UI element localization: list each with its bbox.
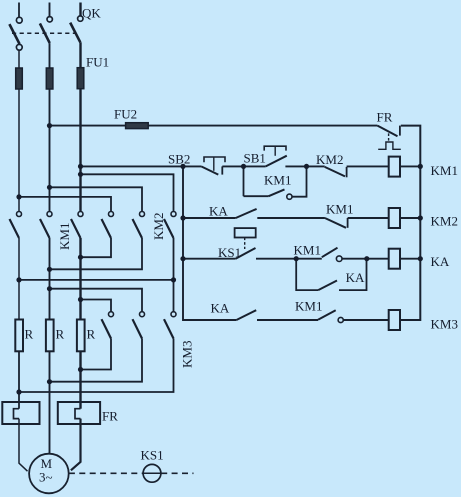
wire L1 node to KM2 contact3 xyxy=(19,279,174,281)
wire phase L3 to motor xyxy=(71,419,81,471)
svg-text:KM1: KM1 xyxy=(295,299,322,314)
wire KM1 self-hold riser xyxy=(292,166,307,196)
junction node KM2c3 KM3c3 xyxy=(171,277,176,282)
fuse FU2 xyxy=(126,123,149,129)
svg-text:KA: KA xyxy=(346,270,365,285)
contactor KM3 contact 3 blade xyxy=(164,319,174,338)
junction node L3 KM2 return xyxy=(78,255,83,260)
wire KM3 contact3 to L1 below R xyxy=(19,339,174,393)
relay FR trip symbol xyxy=(378,142,401,149)
wire KM2 contact3 down to KM3 contact3 xyxy=(173,238,175,312)
svg-text:KM1: KM1 xyxy=(431,163,458,178)
wire rung4 KA label segment xyxy=(235,319,237,321)
contactor KM2 main contact 2 terminal xyxy=(140,212,145,217)
resistor R3 xyxy=(77,320,85,352)
contact KM1 self-hold terminal xyxy=(287,194,292,199)
wire phase L2 through fuse FU1b xyxy=(49,43,51,211)
wire phase L3 top stub xyxy=(79,3,81,17)
pushbutton SB2 blade xyxy=(201,166,218,174)
contact KM2 NC aux blade xyxy=(325,167,345,177)
contact KM1 NO rung3 blade xyxy=(322,248,338,258)
svg-text:KM2: KM2 xyxy=(316,152,343,167)
svg-text:QK: QK xyxy=(82,6,101,21)
wire phase L1 to motor xyxy=(19,419,28,472)
svg-text:KA: KA xyxy=(209,204,228,219)
relay FR heater box b xyxy=(58,402,100,424)
wire KM3 contact1 to L3 below R xyxy=(81,339,112,370)
wire phase L1 below resistor xyxy=(18,351,20,408)
relay FR trip linkage dashes xyxy=(388,133,390,140)
wire KM2 feed crossover L1 xyxy=(19,197,111,212)
resistor R2 xyxy=(46,320,54,352)
coil KM1 xyxy=(389,157,400,177)
wire rung4 middle xyxy=(257,319,318,321)
heater FR element a xyxy=(14,409,20,419)
svg-text:SB2: SB2 xyxy=(168,152,190,167)
svg-text:R: R xyxy=(25,327,34,342)
wire KM2 feed crossover L2 xyxy=(50,187,143,211)
fuse FU1 element a xyxy=(16,68,23,89)
svg-text:KM2: KM2 xyxy=(151,213,166,240)
wire coil KA to bus xyxy=(400,258,420,260)
wire rung1 left from L3 xyxy=(81,165,202,167)
contactor KM3 contact 1 terminal xyxy=(109,312,114,317)
contact KA NO rung2 blade xyxy=(236,209,257,218)
wire phase L1 through fuse FU1a xyxy=(18,50,20,211)
speed relay KS1 rotor circle xyxy=(143,464,161,482)
svg-text:KM1: KM1 xyxy=(264,173,291,188)
junction node L1 KM2 return xyxy=(16,277,21,282)
junction node L2 below R xyxy=(47,379,52,384)
contact KM1 NC rung2 post xyxy=(347,218,349,228)
wire rung3 middle xyxy=(256,258,322,260)
contact KA NO rung4 blade xyxy=(236,310,256,320)
switch QK coupling dashed link xyxy=(12,32,76,34)
contactor KM1 main contact 2 blade xyxy=(40,219,50,238)
junction node KA riser xyxy=(364,256,369,261)
contactor KM1 main contact 3 terminal xyxy=(78,212,83,217)
switch QK pole 2 terminal xyxy=(47,17,52,22)
fuse FU1 element c xyxy=(77,68,84,89)
svg-text:KM2: KM2 xyxy=(431,214,458,229)
svg-text:FU2: FU2 xyxy=(114,107,137,122)
svg-text:KA: KA xyxy=(431,254,450,269)
contact KA self-hold blade xyxy=(318,281,337,291)
coil KA xyxy=(389,249,400,269)
pushbutton SB2 post xyxy=(221,166,223,174)
switch QK pole 1 top terminal xyxy=(16,17,22,23)
svg-text:KM3: KM3 xyxy=(431,317,458,332)
contact KM1 NO rung4 blade xyxy=(318,310,336,320)
relay KS1 linkage dashes xyxy=(244,238,246,250)
wire phase L2 to resistor xyxy=(49,238,51,320)
wire coil KM2 to bus xyxy=(400,217,420,219)
svg-text:FR: FR xyxy=(102,409,118,424)
wire KM2 contact1 to L3 node xyxy=(81,238,112,257)
wire rung4 to coil KM3 xyxy=(344,319,389,321)
wire KM1 self-hold branch drop xyxy=(243,166,245,196)
svg-text:KM1: KM1 xyxy=(57,223,72,250)
contactor KM1 main contact 2 terminal xyxy=(47,212,52,217)
wire KM3 feed L2 xyxy=(50,289,143,312)
relay KS1 head box xyxy=(235,228,256,237)
junction node L3 KM3 feed xyxy=(78,297,83,302)
contact KM1 NO rung3 terminal xyxy=(336,256,342,262)
wire KM1 self-hold branch bottom xyxy=(244,195,269,197)
contact KM1 NC rung2 blade xyxy=(325,218,346,228)
contactor KM1 main contact 1 blade xyxy=(10,219,20,238)
wire phase L1 top stub xyxy=(18,3,20,18)
wire rung2 to coil KM2 xyxy=(348,217,389,219)
wire KA self-hold riser xyxy=(339,259,367,290)
relay FR heater box a xyxy=(2,402,39,424)
wire KM3 contact2 to L2 below R xyxy=(50,339,143,382)
svg-text:KS1: KS1 xyxy=(141,448,164,463)
junction node L2-FU2 xyxy=(47,123,52,128)
contactor KM3 contact 1 blade xyxy=(102,319,112,338)
junction node L3 KM2 feed xyxy=(78,172,83,177)
junction node bus KM2 coil xyxy=(418,215,423,220)
svg-text:KM1: KM1 xyxy=(294,243,321,258)
svg-text:R: R xyxy=(87,327,96,342)
contactor KM1 main contact 3 blade xyxy=(71,219,81,238)
wire rung2 left xyxy=(183,217,236,219)
junction node KS1 right xyxy=(294,256,299,261)
contact KM2 NC aux post xyxy=(346,167,348,177)
svg-text:KS1: KS1 xyxy=(218,245,241,260)
junction node bus rung2 xyxy=(180,215,185,220)
wire rung1 SB2 to SB1 xyxy=(222,165,265,167)
wire rung1 to coil KM1 xyxy=(347,165,389,167)
switch QK pole 2 blade xyxy=(40,23,50,43)
contactor KM3 contact 2 blade xyxy=(133,319,143,338)
wire phase L2 top stub xyxy=(49,3,51,17)
contactor KM3 contact 2 terminal xyxy=(140,312,145,317)
contactor KM2 main contact 3 blade xyxy=(164,219,174,238)
svg-text:KA: KA xyxy=(211,301,230,316)
svg-text:3~: 3~ xyxy=(39,470,53,485)
junction node SB1 right xyxy=(304,164,309,169)
junction node L3 rung1 xyxy=(78,164,83,169)
junction node L3 below R xyxy=(78,367,83,372)
junction node L2 KM2 return xyxy=(47,267,52,272)
pushbutton SB2 stem xyxy=(213,157,215,171)
junction node bus KA coil xyxy=(418,256,423,261)
wire rung3 to coil KA xyxy=(342,258,389,260)
wire phase L3 through fuse FU1c xyxy=(79,42,81,211)
switch QK pole 1 blade xyxy=(9,24,19,44)
wire KA self-hold drop xyxy=(296,259,318,290)
wire phase L1 to resistor xyxy=(18,238,20,320)
relay FR NC contact post xyxy=(399,126,401,136)
resistor R1 xyxy=(15,320,23,352)
pushbutton SB1 cap xyxy=(264,146,286,150)
junction node L2 KM3 feed xyxy=(47,286,52,291)
wire control feed FU2 line xyxy=(50,125,378,127)
relay FR NC contact blade xyxy=(377,126,397,137)
svg-text:R: R xyxy=(56,327,65,342)
junction node SB1 left xyxy=(241,164,246,169)
fuse FU1 element b xyxy=(46,68,53,89)
wire control left bus xyxy=(183,166,236,320)
wire KM2 contact2 to L2 node xyxy=(50,238,143,269)
contactor KM2 main contact 3 terminal xyxy=(171,212,176,217)
speed sensor shaft dashed link right xyxy=(161,472,193,474)
speed sensor shaft dashed link left xyxy=(69,472,143,474)
contactor KM3 contact 3 terminal xyxy=(171,312,176,317)
motor M circle xyxy=(29,454,69,494)
contactor KM2 main contact 2 blade xyxy=(133,219,143,238)
heater FR element b xyxy=(75,409,81,419)
pushbutton SB1 blade xyxy=(266,156,287,167)
speed relay KS1 rotor chord xyxy=(143,472,160,474)
contact KM1 self-hold blade xyxy=(269,189,285,196)
wire phase L2 to motor xyxy=(49,351,51,454)
contactor KM2 main contact 1 terminal xyxy=(109,212,114,217)
switch QK pole 1 bottom terminal xyxy=(16,44,22,50)
switch QK pole 3 blade xyxy=(70,23,80,43)
junction node bus KM1 coil xyxy=(418,164,423,169)
wire coil KM1 to bus xyxy=(400,165,420,167)
wire phase L3 to resistor xyxy=(79,238,81,320)
wire KM2 feed crossover L3 xyxy=(81,174,174,211)
coil KM2 xyxy=(389,208,400,228)
contactor KM2 main contact 1 blade xyxy=(102,219,112,238)
switch QK pole 3 terminal xyxy=(78,16,83,21)
wire top right corner xyxy=(400,126,420,320)
junction node bus rung3 xyxy=(180,256,185,261)
wire rung2 middle xyxy=(257,217,325,219)
junction node bus rung1 xyxy=(180,164,185,169)
junction node L2 KM2 feed xyxy=(47,185,52,190)
svg-text:SB1: SB1 xyxy=(244,151,266,166)
junction node L1 KM2 feed xyxy=(16,194,21,199)
wire rung1 SB1 to KM2 contact xyxy=(285,165,324,167)
wire KM3 feed L3 xyxy=(81,300,112,312)
contact KM1 NO rung4 terminal xyxy=(338,317,343,322)
wire rung3 left xyxy=(183,258,236,260)
pushbutton SB2 actuator xyxy=(204,157,225,162)
svg-text:FR: FR xyxy=(377,110,393,125)
junction node L1 below R xyxy=(16,389,21,394)
coil KM3 xyxy=(389,310,400,330)
svg-text:FU1: FU1 xyxy=(86,55,109,70)
pushbutton SB1 stem xyxy=(274,146,276,156)
svg-text:KM1: KM1 xyxy=(326,202,353,217)
contactor KM1 main contact 1 terminal xyxy=(17,212,22,217)
wire phase L3 below resistor xyxy=(79,351,81,408)
contact KS1 NO blade xyxy=(236,248,256,259)
svg-text:KM3: KM3 xyxy=(180,341,195,368)
